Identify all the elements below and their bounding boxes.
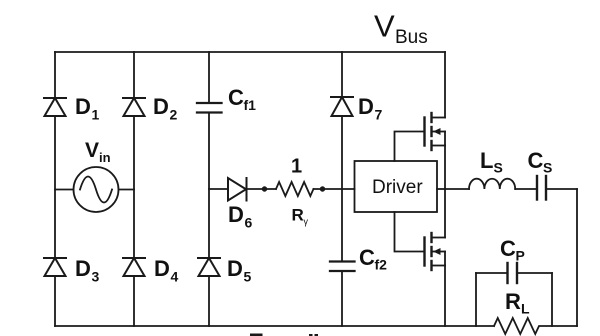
svg-text:in: in — [99, 150, 111, 165]
svg-text:D: D — [227, 256, 243, 281]
svg-text:7: 7 — [375, 107, 383, 123]
svg-text:D: D — [154, 256, 170, 281]
svg-text:Bus: Bus — [395, 27, 428, 48]
svg-text:1: 1 — [92, 107, 100, 123]
svg-text:C: C — [228, 85, 244, 110]
svg-text:Driver: Driver — [372, 177, 423, 198]
svg-text:V: V — [374, 9, 395, 44]
svg-text:V: V — [85, 139, 99, 162]
svg-text:4: 4 — [171, 269, 179, 285]
svg-text:R: R — [505, 289, 521, 314]
svg-text:f2: f2 — [375, 257, 388, 273]
svg-text:D: D — [75, 256, 91, 281]
svg-text:D: D — [228, 202, 244, 227]
svg-text:D: D — [75, 94, 91, 119]
svg-text:S: S — [543, 160, 552, 176]
svg-text:C: C — [500, 236, 516, 261]
svg-text:γ: γ — [304, 217, 309, 227]
svg-text:L: L — [480, 148, 493, 173]
svg-text:L: L — [521, 301, 530, 317]
svg-text:1: 1 — [291, 156, 302, 178]
svg-text:P: P — [516, 248, 525, 264]
svg-text:R: R — [292, 206, 304, 225]
svg-text:S: S — [494, 160, 503, 176]
svg-text:3: 3 — [92, 269, 100, 285]
svg-text:f1: f1 — [244, 97, 257, 113]
svg-text:2: 2 — [170, 107, 178, 123]
svg-text:D: D — [153, 94, 169, 119]
svg-text:6: 6 — [245, 215, 253, 231]
svg-text:5: 5 — [244, 269, 252, 285]
svg-text:C: C — [359, 245, 375, 270]
svg-text:C: C — [528, 148, 544, 173]
svg-text:D: D — [358, 94, 374, 119]
